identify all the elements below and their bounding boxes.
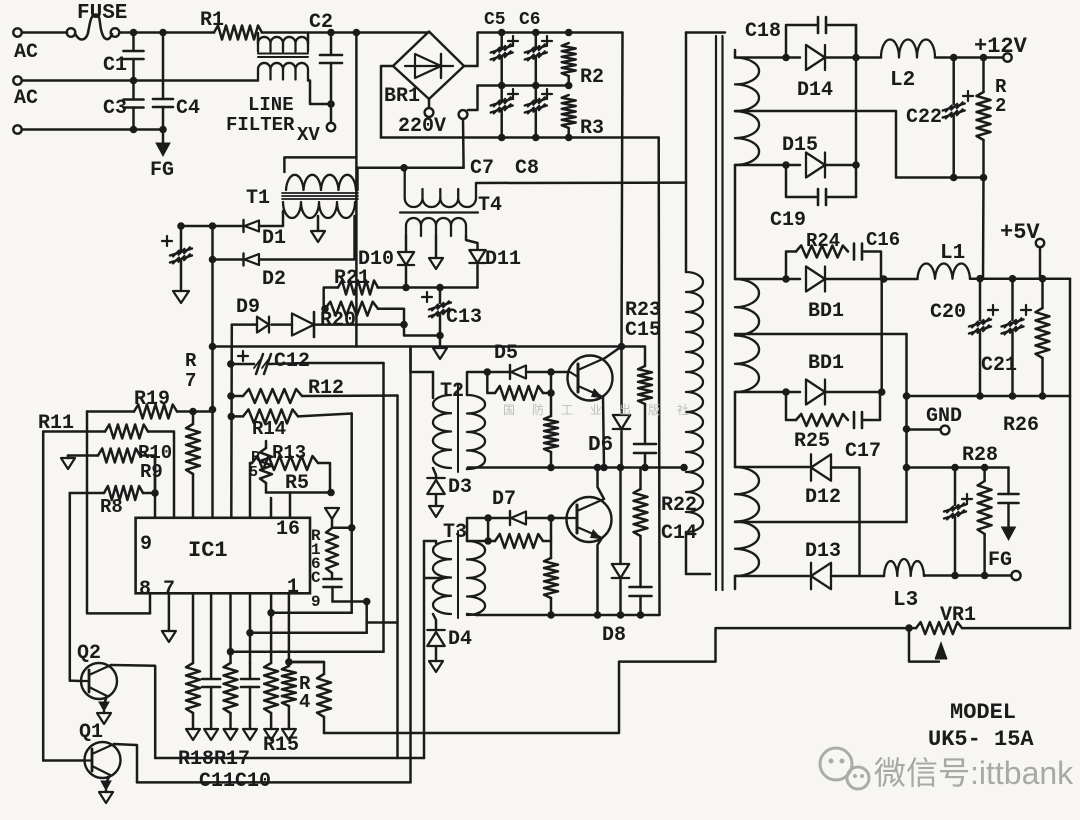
- svg-text:LINE: LINE: [248, 94, 294, 116]
- terminal +5V: [1000, 220, 1044, 279]
- diode D9: [232, 296, 269, 333]
- capacitor C5: [484, 10, 518, 86]
- watermark wechat icon: [820, 748, 869, 789]
- svg-text:T4: T4: [478, 194, 502, 217]
- bridge rectifier BR1: [384, 32, 464, 109]
- resistor R9: [68, 449, 163, 494]
- wire Q2 base: [70, 679, 81, 682]
- transformer T primary lead: [685, 33, 688, 273]
- svg-text:9: 9: [311, 593, 321, 611]
- transistor Q4: [567, 497, 612, 542]
- resistor R13: [250, 442, 330, 493]
- wire T1 sec right: [259, 216, 355, 260]
- resistor R21: [334, 267, 378, 295]
- resistor R4: [289, 662, 331, 733]
- svg-text:9: 9: [140, 533, 152, 556]
- wire: [181, 225, 213, 228]
- wire T4 sec left: [405, 236, 408, 251]
- capacitor C12: [231, 350, 384, 374]
- svg-text:IC1: IC1: [188, 538, 228, 563]
- capacitor C19: [770, 165, 856, 232]
- ground: [429, 506, 443, 517]
- transformer T3 mid tap: [424, 577, 443, 580]
- svg-text:C20: C20: [930, 301, 966, 324]
- wire Q1 emitter: [99, 775, 113, 803]
- resistor R8: [70, 486, 159, 518]
- resistor R12: [231, 377, 398, 403]
- svg-text:T3: T3: [443, 521, 467, 544]
- diode D10: [358, 248, 414, 271]
- capacitor C17: [845, 392, 881, 463]
- wire W1 mid lead: [735, 111, 987, 181]
- svg-text:R9: R9: [140, 461, 163, 483]
- wire bridge left to bottom rail: [381, 66, 393, 138]
- capacitor FG: [988, 468, 1019, 573]
- svg-text:R24: R24: [806, 230, 840, 252]
- resistor base lower: [467, 518, 551, 548]
- wire: [825, 25, 860, 197]
- diode D5: [487, 342, 526, 379]
- diode D3: [427, 476, 472, 499]
- wire +12V return down: [982, 178, 985, 279]
- wire R19 riser: [87, 412, 150, 614]
- wire T2 left bottom: [433, 468, 436, 478]
- wire: [825, 279, 886, 396]
- label UK5-15A: [928, 727, 1034, 752]
- wire T3 left bottom: [433, 614, 436, 630]
- inductor L3: [884, 559, 1011, 612]
- wire R21 left: [324, 288, 338, 309]
- capacitor C13: [422, 288, 482, 336]
- wire W3 mid lead: [735, 521, 907, 524]
- wire T2 feed: [411, 347, 434, 373]
- wire: [355, 157, 358, 346]
- wire T4 sec right: [466, 236, 478, 249]
- transformer T core: [716, 36, 723, 590]
- wire R4 to staircase: [324, 624, 913, 733]
- resistor emitter upper: [544, 372, 558, 471]
- wire Q2 emitter: [97, 696, 111, 724]
- diode D9 anode drop: [227, 325, 235, 518]
- wire D5 to base: [526, 368, 569, 376]
- wire emitter rail upper: [468, 464, 688, 472]
- watermark wechat text: [874, 755, 1074, 791]
- svg-text:D3: D3: [448, 476, 472, 499]
- capacitor C18: [745, 17, 856, 58]
- svg-text:7: 7: [185, 370, 196, 392]
- wire W2 top lead: [735, 275, 800, 283]
- transformer T4 core: [400, 211, 478, 213]
- svg-text:D15: D15: [782, 134, 818, 157]
- resistor R15: [263, 663, 299, 757]
- capacitor C1: [103, 33, 144, 81]
- resistor R23: [622, 299, 662, 404]
- svg-text:2: 2: [995, 95, 1006, 117]
- wire W2 mid lead: [735, 333, 907, 336]
- AC input terminal 1: [13, 28, 38, 64]
- wire pin7 ground: [162, 593, 176, 642]
- capacitor C21: [981, 279, 1031, 396]
- wire Q2 collector: [111, 665, 155, 758]
- diode D14: [797, 45, 833, 102]
- diode D8: [602, 468, 629, 648]
- transformer T primary bottom: [686, 532, 710, 574]
- resistor R28: [962, 444, 998, 576]
- svg-text:+5V: +5V: [1000, 220, 1040, 245]
- diode D7: [488, 488, 526, 525]
- wire T3 feed riser: [423, 541, 426, 758]
- svg-text:C3: C3: [103, 97, 127, 120]
- wire gnd rail: [907, 392, 1071, 400]
- svg-text:C1: C1: [103, 54, 127, 77]
- svg-text:D7: D7: [492, 488, 516, 511]
- resistor R20: [320, 302, 378, 332]
- wire pin top 290: [289, 493, 292, 518]
- svg-text:R18R17: R18R17: [178, 748, 250, 771]
- wire W3 top lead: [735, 466, 809, 469]
- wire R11 vertical: [38, 412, 74, 761]
- transistor Q3: [568, 356, 613, 401]
- transformer T4 secondary: [406, 218, 466, 236]
- wire: [435, 494, 438, 506]
- capacitor C+ (IC supply): [162, 226, 192, 291]
- label R18R17: [178, 748, 250, 771]
- capacitor C6: [519, 10, 552, 86]
- capacitor C14: [630, 522, 698, 615]
- node T4 center tap: [429, 236, 443, 269]
- resistor R16: [311, 508, 356, 587]
- svg-text:BD1: BD1: [808, 352, 844, 375]
- line filter bottom winding: [226, 63, 308, 136]
- wire W3 bot lead: [735, 575, 809, 578]
- wire Q1 collector: [114, 744, 137, 782]
- resistor R2: [562, 43, 604, 89]
- wire: [476, 265, 479, 288]
- wire bottom rail: [381, 134, 659, 142]
- diode D12: [805, 454, 841, 509]
- wire pin8: [149, 593, 152, 613]
- svg-text:BD1: BD1: [808, 300, 844, 323]
- label C11C10: [199, 770, 271, 793]
- svg-text:C16: C16: [866, 229, 900, 251]
- svg-text:AC: AC: [14, 41, 38, 64]
- wire rail pin4: [285, 593, 324, 666]
- snubber R24: [786, 230, 848, 279]
- wire: [825, 54, 860, 62]
- svg-text:Q1: Q1: [79, 721, 103, 744]
- transformer T2 core: [457, 385, 459, 472]
- svg-text:R28: R28: [962, 444, 998, 467]
- svg-text:C15: C15: [625, 319, 661, 342]
- wire: [177, 222, 243, 230]
- svg-text:R3: R3: [580, 117, 604, 140]
- wire T2 right bottom: [467, 468, 468, 470]
- ground FG: [150, 130, 174, 183]
- transformer T3 left winding: [424, 521, 467, 614]
- svg-text:Q2: Q2: [77, 642, 101, 665]
- wire: [405, 267, 408, 288]
- wire: [22, 126, 167, 134]
- svg-text:R12: R12: [308, 377, 344, 400]
- wire top rail down: [622, 33, 623, 347]
- wire pin top 250: [249, 463, 252, 518]
- transformer T1 primary: [246, 175, 356, 210]
- transformer T1 secondary: [283, 202, 355, 218]
- wire rail 287: [378, 284, 478, 292]
- svg-text:MODEL: MODEL: [950, 700, 1016, 725]
- wire bundle short: [365, 602, 368, 633]
- wire bridge neg down: [657, 138, 660, 616]
- wire Q3 collector: [605, 347, 622, 359]
- wire T3 right top: [467, 514, 492, 545]
- wire 220V selector: [459, 86, 478, 168]
- wire R28 rail: [907, 464, 1009, 472]
- capacitor C7: [470, 86, 518, 181]
- wire center tap riser: [903, 334, 911, 522]
- wire T4 feed: [403, 168, 406, 172]
- wire W1 top lead: [735, 54, 800, 62]
- diode D11: [469, 248, 521, 271]
- wire to T1: [284, 33, 356, 173]
- wire R5 line: [266, 472, 335, 496]
- svg-text:+12V: +12V: [974, 34, 1028, 59]
- wire main left vertical: [209, 226, 217, 518]
- capacitor C4: [153, 33, 200, 130]
- svg-text:C22: C22: [906, 106, 942, 129]
- svg-text:D14: D14: [797, 79, 833, 102]
- terminal GND: [907, 405, 963, 434]
- svg-text:C6: C6: [519, 10, 541, 30]
- node T1 center tap: [311, 216, 325, 242]
- terminal 220V: [398, 99, 446, 138]
- svg-text:D2: D2: [262, 268, 286, 291]
- svg-text:FUSE: FUSE: [77, 2, 127, 25]
- svg-text:L3: L3: [893, 589, 918, 612]
- svg-text:XV: XV: [297, 124, 320, 146]
- IC IC1: [136, 518, 310, 601]
- svg-text:D6: D6: [588, 434, 613, 457]
- svg-text:C5: C5: [484, 10, 506, 30]
- svg-text:R5: R5: [285, 472, 309, 495]
- svg-text:D1: D1: [262, 227, 286, 250]
- ground: [173, 291, 189, 303]
- wire collector rail: [213, 343, 626, 351]
- svg-text:UK5- 15A: UK5- 15A: [928, 727, 1034, 752]
- svg-text:微信号:ittbank: 微信号:ittbank: [874, 755, 1074, 791]
- terminal FG out: [1011, 571, 1020, 580]
- diode D9b: [272, 312, 408, 337]
- diode D13: [805, 540, 841, 589]
- wire: [22, 77, 258, 85]
- resistor R19: [87, 388, 213, 419]
- wire Q2 collector rail: [155, 757, 424, 760]
- wire D7 to base: [526, 514, 568, 522]
- svg-text:C4: C4: [176, 97, 200, 120]
- watermark press: [503, 402, 706, 417]
- wire T1 right lead: [358, 164, 464, 190]
- wire: [831, 468, 860, 577]
- svg-text:C7: C7: [470, 157, 494, 180]
- wire: [262, 29, 429, 37]
- wire: [119, 29, 214, 37]
- resistor R10: [43, 425, 174, 518]
- wire: [435, 646, 438, 661]
- transformer T primary winding: [686, 272, 703, 532]
- wire rail pin2: [246, 593, 367, 663]
- wire T3 right bottom: [467, 614, 477, 615]
- capacitor C2: [309, 11, 342, 108]
- capacitor C10: [241, 663, 259, 740]
- wire: [734, 576, 737, 589]
- svg-text:FG: FG: [988, 549, 1012, 572]
- transformer T secondary winding 2: [735, 279, 759, 392]
- wire W1 bot lead: [735, 161, 800, 169]
- svg-text:C18: C18: [745, 20, 781, 43]
- wire pin top 271: [270, 498, 273, 518]
- wire Q3 emitter: [600, 397, 608, 471]
- wire Q4 emitter: [594, 538, 602, 619]
- svg-text:FILTER: FILTER: [226, 114, 295, 136]
- transistor Q2: [77, 642, 117, 699]
- capacitor C out: [944, 468, 972, 576]
- ground: [429, 661, 443, 672]
- svg-text:C19: C19: [770, 209, 806, 232]
- svg-text:R26: R26: [1003, 414, 1039, 437]
- wire: [734, 165, 737, 279]
- line filter top winding: [258, 33, 308, 52]
- line filter core: [258, 54, 308, 58]
- wire +5V to VR1: [1069, 279, 1072, 628]
- transformer T secondary line: [734, 50, 737, 58]
- svg-text:C14: C14: [661, 522, 697, 545]
- svg-text:D11: D11: [485, 248, 521, 271]
- fuse FUSE: [67, 2, 128, 40]
- svg-text:D8: D8: [602, 624, 626, 647]
- ground: [433, 348, 447, 359]
- transformer T1 core: [282, 193, 358, 199]
- resistor R22: [634, 468, 698, 537]
- AC input terminal 3: [13, 125, 21, 133]
- svg-text:D9: D9: [236, 296, 260, 319]
- resistor R14: [231, 409, 351, 440]
- svg-text:D5: D5: [494, 342, 518, 365]
- svg-text:C8: C8: [515, 157, 539, 180]
- resistor R2 out: [977, 58, 1008, 178]
- svg-text:C21: C21: [981, 354, 1017, 377]
- transformer T main top: [686, 31, 725, 34]
- wire R20 right: [378, 309, 404, 325]
- svg-text:R8: R8: [100, 496, 123, 518]
- inductor L2: [856, 40, 1003, 93]
- diode D2: [244, 254, 287, 292]
- potentiometer VR1: [909, 604, 1070, 634]
- svg-text:C2: C2: [309, 11, 333, 34]
- wire R8 vertical: [69, 493, 72, 681]
- capacitor C11: [202, 593, 220, 740]
- svg-text:D4: D4: [448, 628, 472, 651]
- svg-text:国防工业出版社: 国防工业出版社: [503, 402, 706, 417]
- capacitor C8: [515, 86, 552, 181]
- svg-text:GND: GND: [926, 405, 962, 428]
- snubber R25: [786, 392, 848, 453]
- wire bridge right to top rail: [464, 29, 623, 66]
- resistor R pin4: [282, 666, 296, 740]
- svg-text:VR1: VR1: [940, 604, 976, 627]
- transformer T2 left winding: [433, 372, 464, 468]
- wire rail pin3: [227, 593, 384, 663]
- svg-text:R: R: [185, 350, 197, 372]
- svg-text:R15: R15: [263, 734, 299, 757]
- wire rail 622: [367, 621, 398, 624]
- wire: [154, 456, 157, 518]
- resistor R small: [249, 441, 272, 493]
- wire T2 right top: [467, 368, 491, 395]
- svg-text:R25: R25: [794, 430, 830, 453]
- terminal +12V: [974, 34, 1028, 62]
- resistor base upper: [487, 372, 555, 400]
- svg-text:R20: R20: [320, 309, 356, 332]
- svg-text:C: C: [311, 569, 321, 587]
- capacitor C3: [103, 81, 144, 130]
- diode D4: [427, 628, 472, 651]
- wire bundle R14: [350, 414, 353, 613]
- wire: [22, 31, 67, 34]
- svg-text:R21: R21: [334, 267, 370, 290]
- svg-text:R2: R2: [580, 66, 604, 89]
- wire: [831, 575, 884, 578]
- AC input terminal 2: [13, 76, 38, 110]
- transformer T3 core: [457, 531, 459, 618]
- svg-text:AC: AC: [14, 87, 38, 110]
- transformer T4 primary: [405, 172, 502, 217]
- capacitor C9: [311, 573, 342, 611]
- wire Q4 collector: [594, 464, 604, 499]
- label MODEL: [950, 700, 1016, 725]
- resistor R18: [186, 593, 200, 740]
- svg-text:4: 4: [299, 691, 310, 713]
- transformer T2 right winding: [467, 395, 485, 469]
- wire: [209, 256, 243, 264]
- transformer T secondary winding 1: [735, 58, 759, 166]
- svg-text:L1: L1: [940, 242, 965, 265]
- wire C9 bottom rail: [333, 598, 371, 606]
- svg-text:R13: R13: [272, 442, 306, 464]
- wire: [825, 275, 888, 283]
- svg-text:T2: T2: [440, 380, 464, 403]
- capacitor C15: [625, 319, 661, 468]
- diode BD1 b: [806, 352, 844, 405]
- svg-text:L2: L2: [890, 69, 915, 92]
- transformer T3 right winding: [467, 541, 485, 615]
- diode D15: [782, 134, 825, 178]
- ground: [61, 456, 75, 470]
- svg-text:R14: R14: [252, 418, 286, 440]
- terminal XV: [297, 104, 335, 146]
- svg-text:C17: C17: [845, 440, 881, 463]
- svg-text:16: 16: [276, 518, 300, 541]
- wire T1 sec left: [259, 211, 283, 226]
- svg-text:C12: C12: [274, 350, 310, 373]
- svg-text:BR1: BR1: [384, 85, 420, 108]
- diode D1: [244, 220, 287, 250]
- node mid rail: [478, 82, 573, 90]
- wire bundle C12: [382, 363, 385, 652]
- svg-text:R22: R22: [661, 494, 697, 517]
- svg-text:R11: R11: [38, 412, 74, 435]
- svg-text:D12: D12: [805, 486, 841, 509]
- svg-text:FG: FG: [150, 159, 174, 182]
- svg-text:5: 5: [249, 464, 258, 481]
